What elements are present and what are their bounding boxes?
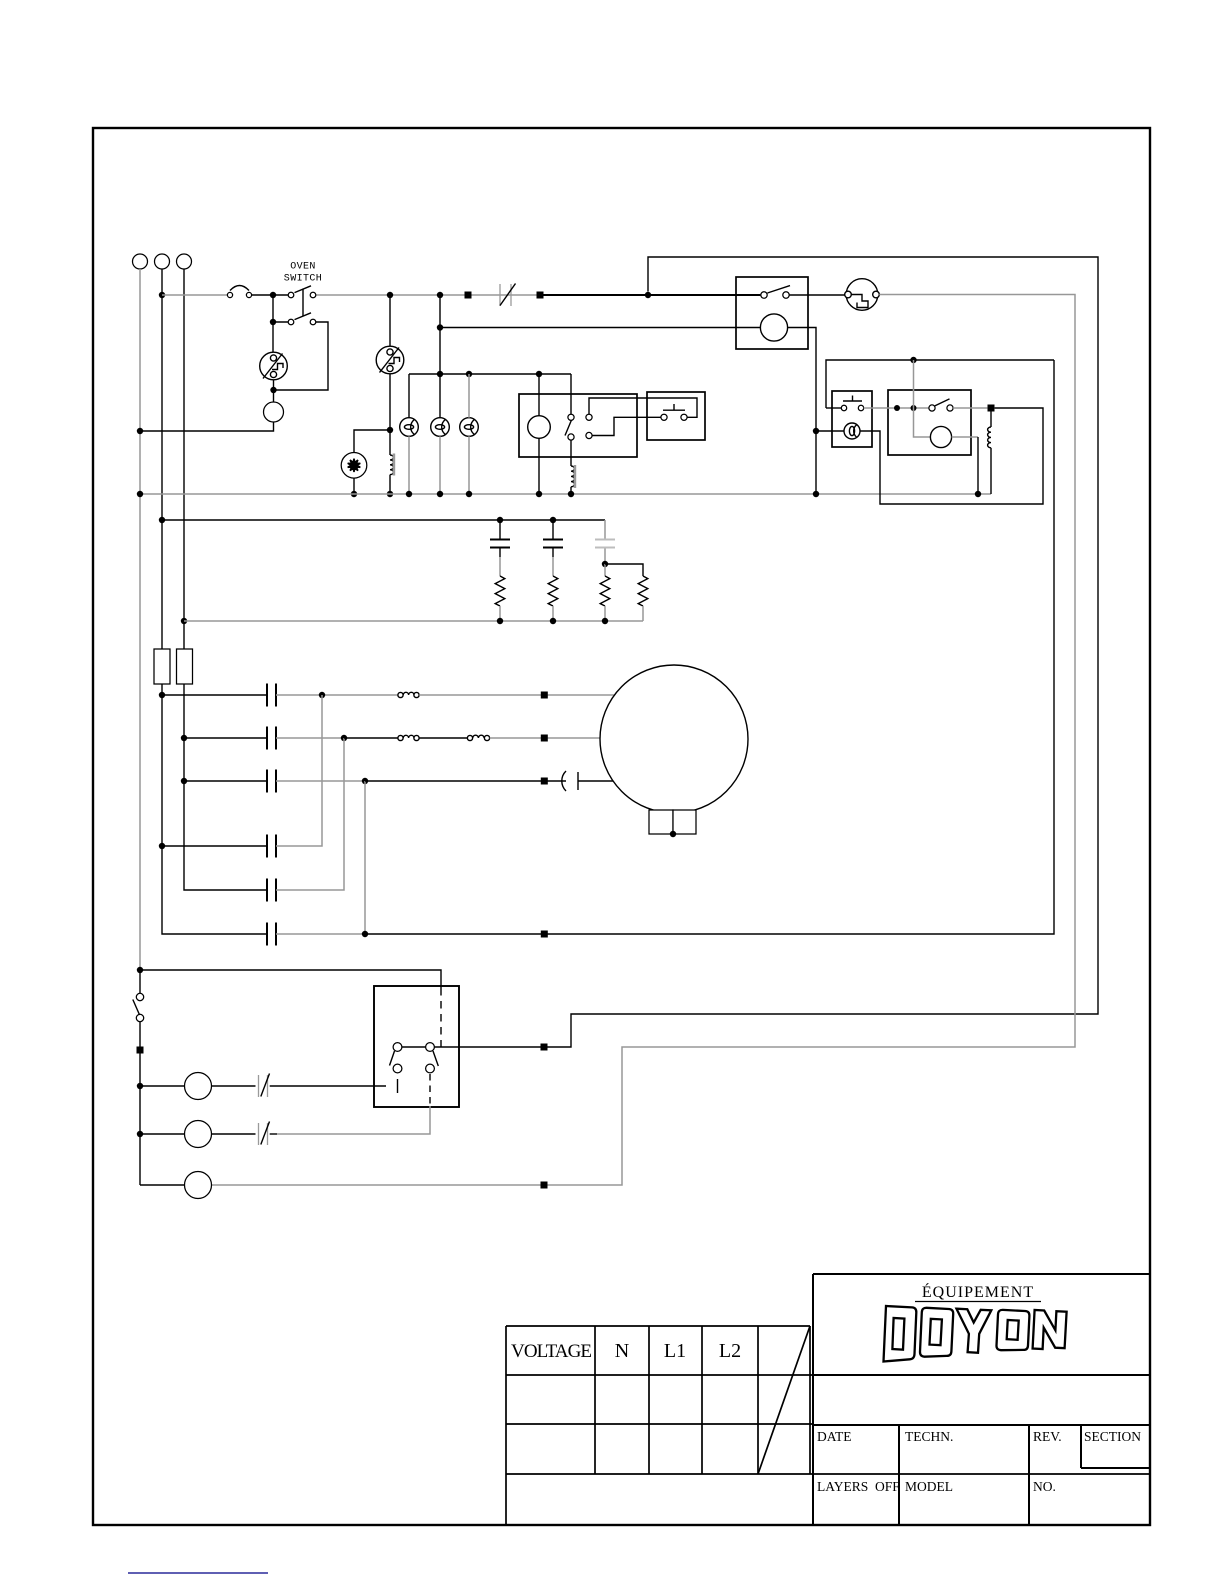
DPDT blades <box>390 1051 439 1066</box>
DPDT top contacts <box>393 1043 402 1052</box>
wire row3/row6 vertical link (gray) <box>364 781 366 934</box>
node res2/rail <box>550 618 556 624</box>
svg-text:NO.: NO. <box>1033 1479 1056 1494</box>
wire row3 black to capacitor <box>365 780 566 782</box>
ignition pushbutton PB2 <box>841 405 846 410</box>
wire row4 after contact and link up <box>276 695 322 846</box>
node y360 relay coil tap <box>910 357 916 363</box>
wire row A to DPDT <box>270 1085 386 1087</box>
node bus/overload <box>568 491 574 497</box>
capacitor C1 <box>499 520 501 539</box>
wire aux lower to pushbutton left <box>592 417 661 435</box>
wire rowC stub <box>140 1184 184 1186</box>
wire relay R1 coil feed y327 <box>440 327 760 329</box>
oven switch pole 2 <box>288 319 294 325</box>
node bus/contactor coil <box>536 491 542 497</box>
circuit breaker CB1 <box>500 284 511 306</box>
wire R1 contact to buzzer <box>789 294 844 296</box>
resistor R4 <box>638 576 648 606</box>
wire buzzer gray loop to relay R3 row (right side) <box>211 295 1075 1186</box>
contact square row2 <box>541 735 548 742</box>
pushbutton PB1 box <box>647 392 705 440</box>
node row3 tap <box>181 778 187 784</box>
footer hyperlink underline <box>128 1572 268 1574</box>
node row1/row4 link <box>319 692 325 698</box>
motor terminal box right <box>673 810 696 834</box>
svg-text:TECHN.: TECHN. <box>905 1429 953 1444</box>
wire contact to overload coil to bus <box>570 440 572 466</box>
node A main/ovensw <box>270 292 276 298</box>
contactor contact row4 <box>267 835 276 858</box>
wire cap to motor <box>578 780 613 782</box>
node bus/lamp3 <box>466 491 472 497</box>
fuse FU2 <box>177 649 193 684</box>
wire R2 coil feed (gray) <box>914 360 931 437</box>
svg-text:L2: L2 <box>719 1340 741 1362</box>
wire capacitor rail y520 <box>162 519 605 521</box>
contactor contact row2 <box>267 727 276 750</box>
wire row2 to motor (gray) <box>490 737 600 739</box>
capacitor C2 <box>552 520 554 539</box>
svg-text:DATE: DATE <box>817 1429 852 1444</box>
wire row3 after contact (gray then black) <box>276 780 365 782</box>
bulb B1 <box>264 402 284 422</box>
node bus/lamp2 <box>437 491 443 497</box>
node row3/row6 link <box>362 778 368 784</box>
wire line2 vertical <box>162 269 267 934</box>
wire PB2 to R2 contact (gray) <box>864 407 929 409</box>
node res1/rail <box>497 618 503 624</box>
node line2/main wire <box>159 292 165 298</box>
pilot lamp P3 <box>460 418 479 437</box>
DPDT bottom contacts <box>393 1064 402 1073</box>
wire into PB2 <box>826 407 841 409</box>
node cap1 tap <box>497 517 503 523</box>
coil L1 (solenoid with core) <box>389 430 391 455</box>
node row2 tap <box>181 735 187 741</box>
row A lamp LA <box>140 1085 184 1087</box>
dashed actuator link vertical <box>440 988 442 1053</box>
relay R2 box <box>888 390 971 455</box>
wire R2 coil to bus <box>952 436 978 438</box>
svg-text:N: N <box>615 1340 629 1362</box>
thermostat T2 <box>376 346 404 374</box>
start capacitor C4 <box>562 771 578 791</box>
node main/lamp-feed <box>437 292 443 298</box>
contact square row3 <box>541 778 548 785</box>
wire main black to relay R1 <box>544 294 761 296</box>
contactor coil <box>528 416 551 439</box>
relay R1 contact <box>761 292 767 298</box>
svg-text:SECTION: SECTION <box>1084 1429 1141 1444</box>
wire row1 to motor (gray) <box>419 694 614 696</box>
contact square DPDT out <box>541 1044 548 1051</box>
ignition lamp P4 <box>844 423 860 439</box>
node B pole2 tap <box>270 319 276 325</box>
fuse F1 arc <box>227 292 232 297</box>
node bus/line1 <box>137 491 143 497</box>
node x816 bus <box>813 491 819 497</box>
node line1 y970 <box>137 967 143 973</box>
wire mid loop top rail y360 <box>826 360 1054 408</box>
disconnect switch SW2 <box>139 970 141 993</box>
contact square line1 <box>137 1047 144 1054</box>
wire lamp1 to bus <box>408 436 410 494</box>
wire top loop: DPDT switch to relay R1 line <box>435 257 1098 1047</box>
node main/top loop <box>645 292 651 298</box>
node R2 coil/bus <box>975 491 981 497</box>
wire row6 after contact (gray) <box>276 933 365 935</box>
relay R2 coil <box>930 426 951 447</box>
wire lamp3 feed and to bus <box>468 374 470 494</box>
node res3/rail <box>602 618 608 624</box>
relay R1 box <box>736 277 808 349</box>
fuse FU1 <box>154 649 170 684</box>
overload heater OL3 <box>467 735 489 740</box>
pushbutton PB1 <box>661 414 667 420</box>
wire line1 vertical (gray) <box>139 269 141 970</box>
bus neutral rail (gray) <box>140 493 991 495</box>
wire coil vertical <box>538 374 540 494</box>
contactor aux terminals <box>586 414 592 420</box>
overload heater OL1 <box>398 692 419 697</box>
DPDT right lower dashed <box>429 1074 431 1106</box>
wire T2 branch <box>389 295 391 430</box>
node motor bottom <box>670 831 676 837</box>
wire ignition lamp right loop <box>860 408 1043 504</box>
DPDT switch box <box>374 986 459 1107</box>
resistor R2 <box>548 576 558 606</box>
contactor contact row6 <box>267 923 276 946</box>
contactor main contact <box>568 414 574 420</box>
node line3 y621 <box>181 618 187 624</box>
terminal N <box>177 254 192 269</box>
contact square SQ1 <box>465 292 472 299</box>
wire row1 after contact (gray) <box>276 694 399 696</box>
terminal L1 <box>133 254 148 269</box>
breaker CB2 <box>259 1075 268 1097</box>
wire R2 contact to square <box>953 407 987 409</box>
contact square SQ3 <box>988 405 995 412</box>
breaker CB3 <box>259 1123 268 1145</box>
motor terminal box left <box>649 810 673 834</box>
svg-text:SWITCH: SWITCH <box>284 274 322 285</box>
svg-text:VOLTAGE: VOLTAGE <box>511 1341 592 1362</box>
wire lamp feed vertical x440 <box>439 295 441 418</box>
coil L2 (contactor overload) <box>571 466 574 487</box>
ignition module box <box>832 391 872 447</box>
node lampA tap <box>137 1083 143 1089</box>
node y408 b <box>911 405 917 411</box>
relay R2 contact <box>929 405 935 411</box>
wire node A down to thermostat T1 <box>273 295 288 352</box>
wire row5 after contact and link up <box>276 738 344 890</box>
motor M1 <box>600 665 748 813</box>
oven switch pole 1 <box>288 292 294 298</box>
svg-text:OVEN: OVEN <box>290 262 316 273</box>
wire pole2 loop to node C <box>274 322 328 390</box>
node lamp3 tap <box>466 371 472 377</box>
row B lamp LB <box>140 1133 184 1135</box>
node line2 y520 <box>159 517 165 523</box>
contact square row6 <box>541 931 548 938</box>
node lampB tap <box>137 1131 143 1137</box>
wire T1 to bulb <box>273 380 275 402</box>
node row4 tap <box>159 843 165 849</box>
contactor K1 box <box>519 394 637 457</box>
node row6 link <box>362 931 368 937</box>
wire resistor rail y621 (gray) <box>184 620 643 622</box>
node row1 tap <box>159 692 165 698</box>
page border frame <box>93 128 1150 1525</box>
wire y970 to DPDT box <box>140 970 441 988</box>
node y408 a <box>894 405 900 411</box>
contactor contact row3 <box>267 770 276 793</box>
contact square row1 <box>541 692 548 699</box>
svg-text:L1: L1 <box>664 1340 686 1362</box>
lamp rail y374 <box>409 374 571 418</box>
wire line3 vertical <box>184 269 267 890</box>
DPDT left lower stub <box>397 1079 399 1093</box>
resistor R3 <box>600 576 610 606</box>
svg-text:LAYERS OFF: LAYERS OFF <box>817 1479 900 1494</box>
node contactor coil tap <box>536 371 542 377</box>
row C lamp LC <box>185 1172 212 1199</box>
node star/bus <box>351 491 357 497</box>
wire main feed gray <box>162 294 537 296</box>
terminal L2 <box>155 254 170 269</box>
pilot lamp P2 <box>431 418 450 437</box>
wire row2 between heaters <box>419 737 467 739</box>
svg-text:ÉQUIPEMENT: ÉQUIPEMENT <box>922 1282 1034 1301</box>
node coil/bus <box>387 491 393 497</box>
overload heater OL2 <box>398 735 419 740</box>
wire row6 black to x1054 <box>365 360 1054 934</box>
svg-text:REV.: REV. <box>1033 1429 1062 1444</box>
wire row B to DPDT (gray) <box>270 1133 277 1135</box>
node main/T2 branch <box>387 292 393 298</box>
relay R1 coil <box>760 314 787 341</box>
wire row2 black segment <box>344 737 398 739</box>
node C below T1 <box>270 387 276 393</box>
oven switch link <box>302 289 304 317</box>
wire R1 coil to vertical x816 <box>788 328 816 495</box>
wire node D to motor-start PTC star <box>354 430 390 453</box>
node x816 y431 <box>813 428 819 434</box>
wire star to bus <box>353 478 355 494</box>
thermostat T1 <box>260 352 288 380</box>
wire lamp2 to bus <box>439 436 441 494</box>
coil L3 (relay heater) <box>990 412 992 428</box>
wire row2 after contact (gray then black) <box>276 737 344 739</box>
contactor contact row5 <box>267 879 276 902</box>
wire x816 node to ignition lamp <box>816 430 844 432</box>
DPDT link bar <box>402 1046 426 1048</box>
node line1 y431 <box>137 428 143 434</box>
star device S1 <box>341 453 367 479</box>
logo DOYON <box>884 1306 1067 1362</box>
node x440 y327 <box>437 324 443 330</box>
contactor contact row1 <box>267 684 276 707</box>
wire fuse to oven switch <box>252 294 289 296</box>
node row2/row5 link <box>341 735 347 741</box>
node cap2 tap <box>550 517 556 523</box>
capacitor C3 (gray) <box>604 520 606 539</box>
contact square rowC <box>541 1182 548 1189</box>
wire aux upper to pushbutton right <box>589 398 697 417</box>
node cap3/res4 tap <box>602 561 608 567</box>
title block: logo box <box>813 1274 1150 1525</box>
node D x390 y430 <box>387 427 393 433</box>
title block: voltage table <box>506 1326 1150 1525</box>
svg-text:MODEL: MODEL <box>905 1479 953 1494</box>
node lamp2 tap <box>437 371 443 377</box>
contact square SQ2 <box>537 292 544 299</box>
resistor R1 <box>495 576 505 606</box>
pilot lamp P1 <box>400 418 419 437</box>
wire res4 branch <box>605 564 643 576</box>
node bus/lamp1 <box>406 491 412 497</box>
buzzer BZ1 <box>845 279 880 311</box>
wire bulb down-left to line1 <box>140 422 274 431</box>
